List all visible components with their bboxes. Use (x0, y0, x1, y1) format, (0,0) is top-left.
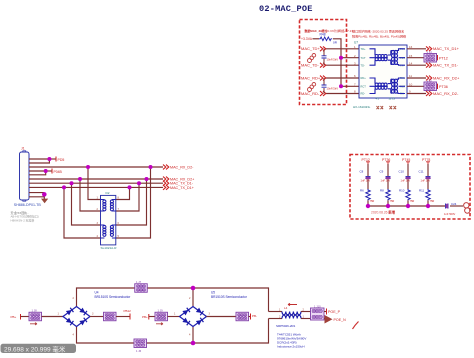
svg-text:R8: R8 (380, 189, 384, 193)
svg-text:HX-16104NL: HX-16104NL (353, 105, 371, 109)
svg-text:Inductance:2x150uH: Inductance:2x150uH (277, 345, 305, 349)
svg-text:PT78: PT78 (422, 158, 430, 162)
svg-text:D2: D2 (106, 191, 110, 195)
svg-text:C9: C9 (380, 170, 384, 174)
svg-text:C8: C8 (360, 170, 364, 174)
svg-text:1 J4: 1 J4 (427, 50, 433, 54)
svg-text:PB+: PB+ (142, 315, 148, 319)
svg-text:PB12: PB12 (124, 309, 132, 313)
svg-text:1 J8: 1 J8 (32, 308, 38, 312)
svg-text:2020.08.26 新增: 2020.08.26 新增 (371, 210, 396, 215)
svg-text:POE_N: POE_N (334, 318, 347, 322)
svg-text:MAC_RX_D2-: MAC_RX_D2- (170, 165, 194, 169)
svg-text:1nF 500V: 1nF 500V (444, 212, 456, 216)
svg-text:4 5: 4 5 (376, 97, 380, 101)
svg-text:RD+: RD+ (361, 76, 367, 80)
svg-text:PT45: PT45 (402, 158, 410, 162)
svg-text:75R: 75R (410, 199, 415, 203)
svg-text:10: 10 (409, 83, 413, 87)
svg-text:PT36: PT36 (439, 85, 448, 89)
svg-text:PB+: PB+ (11, 315, 17, 319)
svg-text:端口防护网络 -2020.03.25 更改网络名: 端口防护网络 -2020.03.25 更改网络名 (352, 29, 404, 34)
svg-text:29.698 x 20.999 毫米: 29.698 x 20.999 毫米 (4, 345, 66, 353)
svg-text:U7: U7 (354, 41, 358, 45)
svg-text:MAC_RX_D2-: MAC_RX_D2- (433, 91, 459, 96)
svg-text:SRP5026-2R1: SRP5026-2R1 (276, 324, 296, 328)
svg-text:75R: 75R (430, 199, 435, 203)
svg-text:PB-: PB- (252, 314, 257, 318)
svg-text:PT36: PT36 (382, 158, 390, 162)
svg-text:C24: C24 (451, 202, 457, 206)
svg-text:H8KHSN-2 标准格: H8KHSN-2 标准格 (11, 217, 35, 222)
svg-text:12 13: 12 13 (389, 97, 396, 101)
svg-text:MAC_TD+: MAC_TD+ (301, 46, 320, 51)
svg-text:75R: 75R (370, 199, 375, 203)
svg-text:MAC_TD-: MAC_TD- (301, 63, 319, 68)
svg-text:16: 16 (409, 45, 413, 49)
svg-text:R6: R6 (360, 189, 364, 193)
svg-text:1 J7: 1 J7 (136, 280, 142, 284)
svg-text:RD-: RD- (361, 92, 366, 96)
svg-text:BR1510S Semiconductor: BR1510S Semiconductor (211, 295, 248, 299)
svg-text:隔离P(x45), R(x45), B(x45), P(x4: 隔离P(x45), R(x45), B(x45), P(x45)网络 (352, 34, 406, 39)
svg-text:1nF 2kV: 1nF 2kV (381, 178, 391, 182)
svg-text:PD5: PD5 (58, 158, 65, 162)
svg-text:BR1510S Semiconductor: BR1510S Semiconductor (95, 295, 132, 299)
svg-text:1 J10: 1 J10 (314, 304, 321, 308)
svg-text:1nF 2kV: 1nF 2kV (361, 178, 371, 182)
svg-text:10nF/2kV: 10nF/2kV (327, 58, 339, 62)
svg-text:TCT: TCT (361, 56, 366, 60)
svg-text:L4: L4 (284, 306, 288, 310)
svg-text:SL1021A-R: SL1021A-R (101, 246, 118, 250)
svg-text:15: 15 (409, 54, 413, 58)
svg-text:SH886-DP01-TB: SH886-DP01-TB (14, 203, 42, 207)
svg-text:TD-: TD- (361, 63, 365, 67)
svg-text:11: 11 (409, 74, 412, 78)
svg-text:MAC_RD+: MAC_RD+ (301, 75, 321, 80)
svg-text:1 J6: 1 J6 (136, 349, 142, 353)
svg-text:POE_P: POE_P (328, 310, 341, 314)
svg-text:C11: C11 (419, 170, 424, 174)
svg-text:MAC_TX_D1+: MAC_TX_D1+ (170, 186, 194, 190)
svg-text:R11: R11 (419, 189, 424, 193)
svg-text:R10: R10 (399, 189, 405, 193)
svg-text:MAC_TX_D1-: MAC_TX_D1- (433, 63, 459, 68)
svg-text:02-MAC_POE: 02-MAC_POE (259, 4, 313, 14)
svg-text:U4: U4 (95, 291, 99, 295)
svg-text:1nF 2kV: 1nF 2kV (401, 178, 411, 182)
svg-text:C10: C10 (399, 170, 405, 174)
svg-text:U5: U5 (211, 291, 215, 295)
svg-text:PT12: PT12 (439, 56, 448, 60)
svg-text:J1: J1 (21, 146, 25, 150)
svg-text:MAC_RX_D2+: MAC_RX_D2+ (433, 75, 460, 80)
svg-text:R48: R48 (320, 33, 326, 37)
svg-text:RCT: RCT (361, 84, 367, 88)
svg-text:P04B: P04B (54, 170, 63, 174)
svg-text:1 J5: 1 J5 (427, 79, 433, 83)
svg-text:PT12: PT12 (362, 158, 370, 162)
svg-text:1nF 2kV: 1nF 2kV (421, 178, 431, 182)
svg-text:+3.3VA: +3.3VA (301, 37, 313, 41)
svg-text:75R: 75R (390, 199, 395, 203)
svg-text:TD+: TD+ (361, 47, 366, 51)
svg-text:1 J9: 1 J9 (158, 308, 164, 312)
svg-text:10nF/2kV: 10nF/2kV (327, 87, 339, 91)
svg-text:MAC_TX_D1+: MAC_TX_D1+ (433, 46, 460, 51)
svg-text:14: 14 (409, 61, 413, 65)
